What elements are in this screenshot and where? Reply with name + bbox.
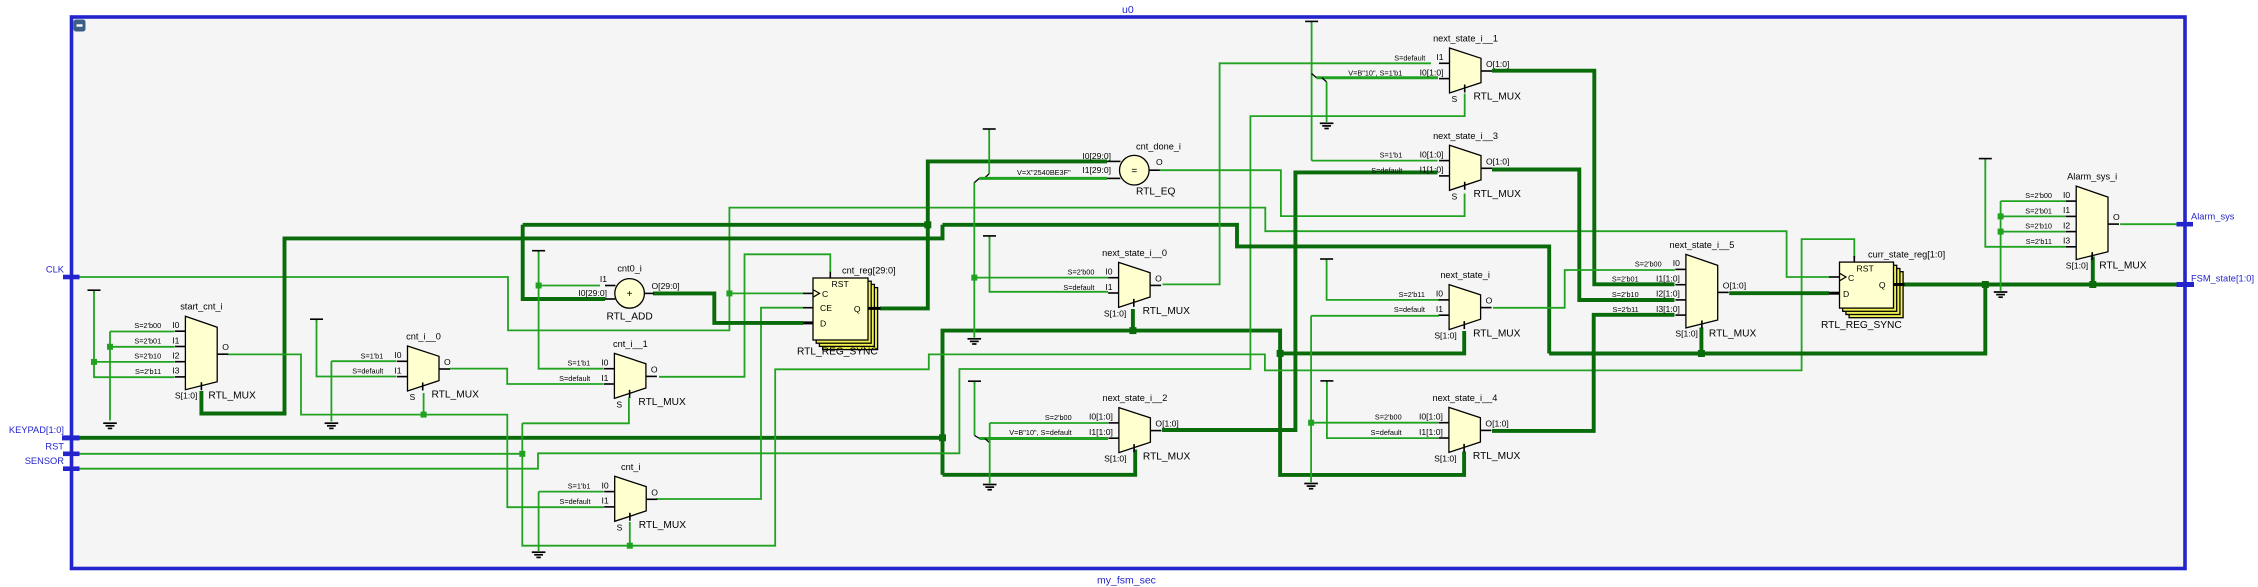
svg-text:I1[1:0]: I1[1:0] [1420,165,1444,175]
svg-text:RTL_MUX: RTL_MUX [2099,260,2147,271]
svg-text:cnt_i: cnt_i [621,462,640,472]
svg-text:RTL_MUX: RTL_MUX [1143,306,1191,317]
svg-text:S=2'b01: S=2'b01 [1612,275,1639,284]
svg-text:S=2'b00: S=2'b00 [1045,413,1072,422]
net cnt_i O wire to cnt_reg CE [657,308,804,499]
svg-text:RTL_MUX: RTL_MUX [208,391,256,402]
svg-text:RST: RST [832,279,850,289]
port RST [63,452,80,457]
port KEYPAD[1:0] [62,435,80,440]
svg-text:next_state_i__0: next_state_i__0 [1102,248,1167,258]
mux next_state_i__1 [1348,34,1521,105]
svg-text:u0: u0 [1122,4,1134,16]
junction const1 adder I1 [536,283,542,289]
svg-text:I1: I1 [172,335,179,345]
svg-text:I0: I0 [601,358,608,368]
ground for Alarm_sys_i I0 I1 I2 [1994,292,2008,297]
port SENSOR [63,466,80,471]
svg-text:S=default: S=default [1063,283,1094,292]
svg-text:I2[1:0]: I2[1:0] [1656,289,1680,299]
svg-text:S[1:0]: S[1:0] [1434,331,1456,341]
junction const0 Alarm I1 [1998,213,2004,219]
svg-text:S=1'b1: S=1'b1 [361,351,384,360]
svg-text:O: O [1155,273,1162,283]
svg-text:S=2'b00: S=2'b00 [1635,259,1662,268]
junction cnt_reg Q branch [924,221,931,228]
constant 1 wire next_state_i I0 [1327,260,1439,300]
svg-text:cnt0_i: cnt0_i [617,264,642,274]
svg-text:O[1:0]: O[1:0] [1723,280,1746,290]
svg-text:Q: Q [854,304,861,314]
net RST wires [79,453,522,455]
svg-text:O[1:0]: O[1:0] [1486,156,1509,166]
wire const to next_state_i__3 I0 [1312,160,1438,162]
svg-text:S=default: S=default [1371,428,1402,437]
svg-text:S: S [617,522,623,532]
net KEYPAD wires [79,436,943,440]
junction const0 next_state_i__4 I0 [1308,420,1314,426]
svg-text:RTL_EQ: RTL_EQ [1136,187,1176,198]
port Alarm_sys [2177,222,2194,227]
svg-text:O: O [1156,157,1163,167]
power bar for EQ I1 constant high bits [983,129,996,132]
svg-text:cnt_i__1: cnt_i__1 [613,339,648,349]
net adder O to cnt_reg D (thick) [653,293,803,323]
constant 0 wires Alarm_sys_i I0 I1 I2 [2001,200,2066,202]
ground for cnt_i__0 I0 [325,423,339,428]
svg-text:V=B"10", S=1'b1: V=B"10", S=1'b1 [1348,69,1402,78]
wire cnt_reg Q to adder I0 [523,223,928,227]
svg-text:S=2'b10: S=2'b10 [1612,290,1639,299]
svg-text:O: O [2113,212,2120,222]
svg-text:KEYPAD[1:0]: KEYPAD[1:0] [9,425,64,435]
svg-text:C: C [822,289,828,299]
constant 1 wire cnt_i__0 I1 [317,320,397,377]
svg-text:my_fsm_sec: my_fsm_sec [1097,575,1156,587]
svg-text:I2: I2 [2063,220,2070,230]
net cnt_i__0 O wire to cnt_i__1 I1 [450,369,604,384]
svg-text:V=X"2540BE3F": V=X"2540BE3F" [1017,168,1071,177]
svg-text:RST: RST [1857,264,1875,274]
ground for next_state_i I1 next_state_i__4 I0 [1304,484,1318,489]
svg-text:RTL_REG_SYNC: RTL_REG_SYNC [797,347,878,358]
svg-text:S: S [1451,94,1457,104]
svg-text:S=1'b1: S=1'b1 [1380,151,1403,160]
svg-text:SENSOR: SENSOR [25,456,65,466]
wire curr_state Q to FSM_state port [1903,283,2180,287]
mux next_state_i__5 [1612,240,1757,340]
ground for start_cnt_i I0 I1 [103,423,117,428]
constant wires EQ I1 value X2540BE3F [988,130,990,174]
junction Q trunk at next_state_i__5 S [1698,350,1705,357]
svg-text:S=2'b11: S=2'b11 [1399,290,1425,299]
svg-text:D: D [820,318,826,328]
constant 0 wires next_state_i I1 / next_state_i__4 I0 [1311,315,1439,317]
net next_state_i__3 O to next_state_i__5 I2 (thick) [1492,170,1675,301]
svg-text:next_state_i__4: next_state_i__4 [1432,393,1497,403]
svg-text:curr_state_reg[1:0]: curr_state_reg[1:0] [1868,250,1945,260]
svg-text:cnt_i__0: cnt_i__0 [406,332,441,342]
svg-text:C: C [1848,273,1854,283]
constant 1 wires adder I1 cnt_i__1 I0 [539,252,604,369]
junction RST port branch [519,451,525,457]
junction const0 Alarm I2 [1998,229,2004,235]
svg-text:I0[1:0]: I0[1:0] [1420,149,1444,159]
svg-text:I0: I0 [1105,267,1112,277]
svg-text:cnt_done_i: cnt_done_i [1136,142,1181,152]
wire Alarm_sys_i S stub [2091,257,2095,285]
svg-text:S=2'b01: S=2'b01 [2025,206,2052,215]
net cnt_i__1 O wire to cnt_reg RST [659,254,830,376]
svg-text:S[1:0]: S[1:0] [1434,453,1456,463]
svg-text:S=2'b00: S=2'b00 [2025,191,2052,200]
junction curr_state Q [1982,281,1989,288]
constant 1 wires for start_cnt_i I2 I3 [94,291,175,377]
svg-text:I0: I0 [172,320,179,330]
svg-text:S[1:0]: S[1:0] [1104,308,1126,318]
svg-text:Q: Q [1879,280,1886,290]
svg-text:I1: I1 [2063,205,2070,215]
svg-text:S[1:0]: S[1:0] [2066,260,2088,270]
svg-text:S=2'b11: S=2'b11 [135,367,161,376]
junction const1 start_cnt I2 [91,359,97,365]
svg-text:I0: I0 [602,480,609,490]
svg-text:I3: I3 [172,366,179,376]
wire RST south trunk [522,239,1854,546]
svg-text:I1: I1 [1436,52,1443,62]
mux next_state_i__4 [1371,393,1521,464]
power bar for start_cnt_i I2 I3 [88,290,101,293]
mux next_state_i__0 [1063,248,1190,319]
wire FSM_state west trunk to start_cnt_i S [943,225,1550,354]
svg-text:RTL_MUX: RTL_MUX [1474,92,1522,103]
svg-text:I0: I0 [2063,190,2070,200]
svg-text:I0: I0 [394,350,401,360]
svg-text:FSM_state[1:0]: FSM_state[1:0] [2191,274,2254,284]
svg-text:S=2'b00: S=2'b00 [1068,268,1095,277]
svg-text:O: O [651,364,658,374]
net next_state_i__5 O to curr_state_reg D (thick) [1729,291,1829,295]
wire KEYPAD branch to next_state_i S [1280,331,1464,353]
mux Alarm_sys_i [2025,172,2147,272]
constant 1 wire Alarm_sys_i I3 [1985,159,2065,246]
power bar for Alarm_sys_i I3 [1979,159,1992,162]
svg-text:O: O [1486,296,1493,306]
power bar for next_state_i__4 I1 [1320,381,1333,384]
wire next_state_i__1 I0 constant bus [1316,76,1438,79]
junction start_cnt O at cnt_i__0 S [421,412,427,418]
adder cnt0_i RTL_ADD [578,264,679,323]
svg-text:next_state_i: next_state_i [1440,270,1490,280]
svg-text:S=default: S=default [1394,53,1425,62]
svg-text:cnt_reg[29:0]: cnt_reg[29:0] [842,266,896,276]
power bar for next_state_i I0 [1320,259,1333,262]
wire const0 to next_state_i__0 I0 [974,277,1108,279]
svg-text:I0: I0 [1673,258,1680,268]
constant 1 wire next_state_i__0 I1 [990,237,1109,292]
svg-text:O: O [651,487,658,497]
svg-text:I1[1:0]: I1[1:0] [1419,427,1443,437]
constant 0 wires next_state_i__2 I0 [990,422,1108,424]
svg-text:I1[1:0]: I1[1:0] [1089,427,1113,437]
svg-text:I1: I1 [1436,304,1443,314]
ground for next_state_i__2 I0 and I1 low bit [983,485,997,490]
svg-text:next_state_i__3: next_state_i__3 [1433,131,1498,141]
svg-text:RTL_MUX: RTL_MUX [1474,189,1522,200]
svg-text:RTL_MUX: RTL_MUX [1473,451,1521,462]
svg-text:S: S [616,399,622,409]
junction KEYPAD at next_state_i__0 S [1129,327,1136,334]
svg-text:O: O [222,342,229,352]
svg-text:S=2'b11: S=2'b11 [1612,305,1638,314]
svg-text:+: + [627,289,633,300]
mux cnt_i [559,462,686,533]
port FSM_state[1:0] [2177,282,2195,287]
wire CLK to cnt_reg C pin [729,292,803,294]
ground for cnt_i I0 [532,552,546,557]
constant 0 wire cnt_i I0 [539,491,604,493]
svg-text:next_state_i__2: next_state_i__2 [1102,393,1167,403]
wire next_state_i__0 S stub [1131,309,1135,331]
net next_state_i__0 O wire to next_state_i__1 I1 [1163,63,1432,284]
power bar for next_state_i__2 I1 high bit [968,381,981,384]
mux cnt_i__0 [352,332,479,403]
constant wires next_state_i__2 I1 value B10 [974,382,976,435]
svg-text:S=1'b1: S=1'b1 [567,359,590,368]
junction KEYPAD at next_state_i S branch [1277,350,1284,357]
mux start_cnt_i [134,302,256,402]
svg-text:RTL_ADD: RTL_ADD [606,312,652,323]
svg-text:D: D [1843,289,1849,299]
junction const0 start_cnt I1 [107,344,113,350]
svg-text:S=1'b1: S=1'b1 [568,482,591,491]
svg-text:S=default: S=default [559,497,590,506]
svg-text:RTL_MUX: RTL_MUX [639,520,687,531]
svg-text:S=default: S=default [352,367,383,376]
svg-text:S: S [409,392,415,402]
constant 1 wire next_state_i__4 I1 [1327,382,1438,438]
svg-text:I3[1:0]: I3[1:0] [1656,304,1680,314]
svg-text:I0[29:0]: I0[29:0] [578,288,607,298]
junction RST at cnt_i S [627,543,633,549]
net SENSOR wires [79,94,1465,469]
svg-text:I0[1:0]: I0[1:0] [1089,412,1113,422]
net Alarm_sys_i O to Alarm_sys port [2120,223,2180,225]
mux next_state_i__2 [1009,393,1190,464]
svg-text:Alarm_sys_i: Alarm_sys_i [2067,172,2117,182]
register curr_state_reg[1:0] RTL_REG_SYNC [1821,250,1945,332]
svg-text:I0[1:0]: I0[1:0] [1419,412,1443,422]
svg-text:S[1:0]: S[1:0] [1104,454,1126,464]
comparator cnt_done_i RTL_EQ [1017,142,1181,198]
port CLK [63,275,80,280]
svg-text:S[1:0]: S[1:0] [1675,329,1697,339]
net start_cnt_i O wires [228,354,605,507]
junction const0 next_state_i__0 I0 [971,275,977,281]
svg-text:I1: I1 [600,274,607,284]
svg-text:RTL_REG_SYNC: RTL_REG_SYNC [1821,320,1902,331]
svg-text:Alarm_sys: Alarm_sys [2191,212,2235,222]
svg-text:S: S [1451,191,1457,201]
svg-text:RTL_MUX: RTL_MUX [638,397,686,408]
svg-text:I0[1:0]: I0[1:0] [1420,67,1444,77]
svg-text:RST: RST [45,441,64,451]
svg-text:S=2'b10: S=2'b10 [2025,222,2052,231]
constant 0 wires for start_cnt_i I0 I1 [110,331,175,333]
wire EQ I1 constant bus [979,177,1107,180]
net cnt_reg Q feedback (thick) [880,161,1107,308]
ground for EQ I1 low bits / next_state_i__0 I0 [968,339,982,344]
net next_state_i__2 O to next_state_i__3 I1 (thick) [1162,172,1438,430]
mux next_state_i [1394,270,1521,341]
wire RST to cnt_i__1 S [522,398,629,424]
svg-text:next_state_i__1: next_state_i__1 [1433,34,1498,44]
svg-text:I0[29:0]: I0[29:0] [1082,151,1111,161]
wire cnt_i S stub [629,522,631,546]
collapse icon [74,20,86,32]
register cnt_reg[29:0] RTL_REG_SYNC [797,266,896,358]
svg-text:I1: I1 [601,373,608,383]
svg-text:S[1:0]: S[1:0] [175,391,197,401]
svg-text:I0: I0 [1436,289,1443,299]
svg-text:O[1:0]: O[1:0] [1486,59,1509,69]
wire next_state_i__2 I1 constant bus [980,437,1109,440]
junction CLK at cnt_reg C branch [726,290,732,296]
wire KEYPAD branch to next_state_i__2 S [943,450,1136,475]
svg-text:I1: I1 [394,365,401,375]
svg-text:S=default: S=default [1394,305,1425,314]
junction KEYPAD trunk [939,434,946,441]
svg-text:O: O [444,357,451,367]
svg-text:I1[29:0]: I1[29:0] [1082,165,1111,175]
net CLK wires [79,208,1829,331]
net next_state_i__1 O to next_state_i__5 I1 (thick) [1492,71,1675,285]
svg-text:S=2'b00: S=2'b00 [1375,413,1402,422]
svg-text:start_cnt_i: start_cnt_i [180,302,222,312]
mux next_state_i__3 [1371,131,1521,202]
svg-text:I2: I2 [172,351,179,361]
svg-text:I1[1:0]: I1[1:0] [1656,274,1680,284]
svg-text:I1: I1 [1105,282,1112,292]
svg-text:CLK: CLK [46,265,65,275]
wire cnt_i__0 S stub [423,393,425,415]
svg-text:S=2'b00: S=2'b00 [134,321,161,330]
svg-text:I3: I3 [2063,236,2070,246]
svg-text:O[29:0]: O[29:0] [652,281,680,291]
net next_state_i__4 O to next_state_i__5 I3 (thick) [1492,315,1675,431]
constant wires next_state_i__1 I0 value B10 [1311,22,1313,160]
net curr_state Q trunk (thick) [1549,285,1985,354]
svg-text:RTL_MUX: RTL_MUX [1473,328,1521,339]
svg-text:RTL_MUX: RTL_MUX [432,390,480,401]
svg-text:S=2'b10: S=2'b10 [134,352,161,361]
junction Q at Alarm_sys_i S [2089,281,2096,288]
svg-text:O[1:0]: O[1:0] [1485,418,1508,428]
power bar for adder I1 and cnt_i__1 I0 [532,251,545,254]
svg-text:S=2'b01: S=2'b01 [134,337,161,346]
svg-text:CE: CE [820,303,832,313]
svg-text:S=default: S=default [1371,166,1402,175]
svg-text:V=B"10", S=default: V=B"10", S=default [1009,428,1071,437]
svg-text:=: = [1131,166,1137,177]
constant 0 wire cnt_i__0 I0 [331,360,396,362]
power bar for next_state_i__1 I0 high bit / next_state_i__3 I0 [1305,21,1318,24]
svg-text:O[1:0]: O[1:0] [1155,419,1178,429]
svg-text:next_state_i__5: next_state_i__5 [1669,240,1734,250]
power bar for next_state_i__0 I1 [983,236,996,239]
svg-text:RTL_MUX: RTL_MUX [1709,329,1757,340]
power bar for cnt_i__0 I1 [310,319,323,322]
svg-text:S=default: S=default [559,374,590,383]
mux cnt_i__1 [559,339,686,410]
svg-text:I1: I1 [602,496,609,506]
net cnt_done wires (EQ output to next_state_i__3 S) [1160,170,1465,216]
net next_state_i O to next_state_i__5 I0 [1493,270,1675,308]
svg-text:RTL_MUX: RTL_MUX [1143,451,1191,462]
ground for next_state_i__1 I0 low bit [1320,123,1334,128]
wire next_state_i__5 S stub [1699,328,1703,354]
svg-text:S=2'b11: S=2'b11 [2026,237,2052,246]
